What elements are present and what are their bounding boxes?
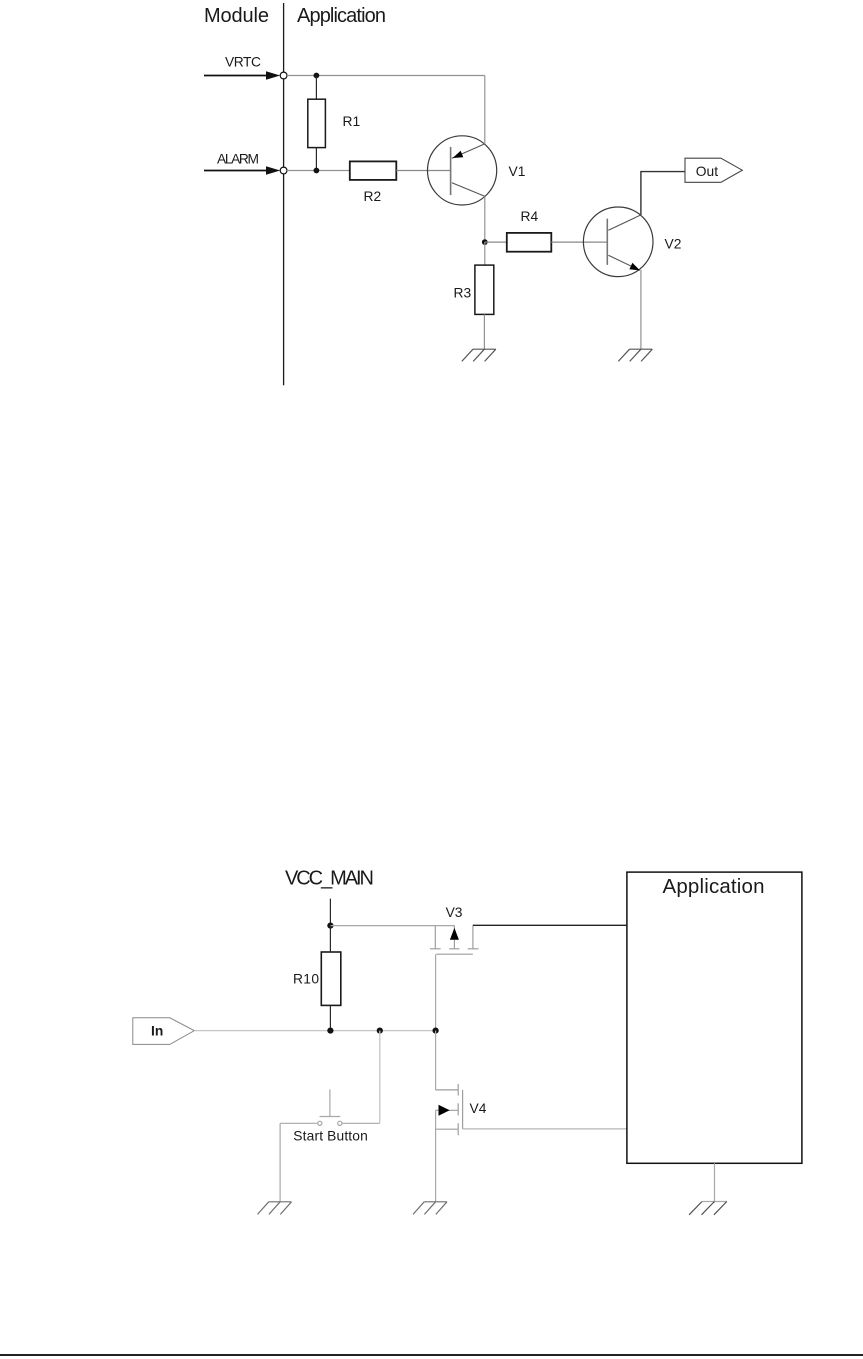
resistor R2 [350, 161, 397, 180]
svg-text:R10: R10 [293, 972, 319, 987]
wire VRTC input arrow [204, 71, 280, 79]
wire VCC_MAIN stub [329, 899, 331, 926]
svg-text:ALARM: ALARM [217, 152, 259, 167]
wire rail down to V4 drain [435, 1031, 437, 1090]
wire V1 emitter up to VRTC rail [484, 76, 486, 145]
svg-text:V3: V3 [446, 905, 463, 920]
wire R3 to ground [483, 314, 485, 348]
wire button right up to In rail [379, 1031, 381, 1124]
wire ALARM rail to R2 [287, 170, 350, 172]
svg-text:VRTC: VRTC [225, 55, 261, 70]
wire VCC rail to V3 [330, 925, 454, 927]
junction VRTC / R1 [314, 73, 320, 79]
pin VRTC terminal [280, 72, 287, 79]
connector Out flag [685, 158, 742, 182]
resistor R3 [475, 265, 494, 314]
transistor V1 (PNP) [428, 136, 497, 205]
wire V3 gate down to In rail [435, 954, 437, 1030]
footer rule [0, 1354, 863, 1356]
junction R10 / In rail [327, 1028, 333, 1034]
svg-text:Application: Application [663, 875, 765, 898]
wire V2 emitter to ground [640, 270, 642, 349]
svg-text:In: In [151, 1023, 163, 1038]
junction V3 gate / V4 drain [433, 1028, 439, 1034]
junction button / In rail [377, 1028, 383, 1034]
ground under Start Button [258, 1202, 292, 1215]
svg-text:Start Button: Start Button [293, 1129, 368, 1144]
ground under Application [689, 1202, 727, 1215]
wire R1 bottom stub [315, 148, 317, 171]
wire V4 source/body down to ground [435, 1110, 437, 1202]
svg-text:R1: R1 [343, 114, 361, 129]
svg-text:R4: R4 [521, 209, 539, 224]
ground under V4 [413, 1202, 447, 1215]
ground under R3 [462, 349, 496, 361]
wire R2 to V1 base [396, 170, 450, 172]
svg-text:Application: Application [297, 5, 386, 27]
push-button Start Button [280, 1089, 380, 1125]
resistor R1 [308, 99, 326, 147]
transistor V4 (N-MOSFET) [436, 1084, 463, 1135]
wire Application box to ground [714, 1163, 716, 1202]
svg-text:Module: Module [204, 5, 269, 27]
wire V4 gate to Application box [463, 1128, 627, 1130]
svg-text:V1: V1 [509, 164, 526, 179]
resistor R10 [321, 952, 341, 1005]
svg-text:V2: V2 [665, 237, 682, 252]
wire R1 top stub [315, 76, 317, 100]
wire VRTC rail [287, 75, 485, 77]
wire R10 top stub [329, 926, 331, 952]
wire V1 collector down [484, 196, 486, 242]
junction VCC node [327, 923, 333, 929]
wire V2 collector to Out flag [641, 172, 685, 215]
wire ALARM input arrow [204, 166, 280, 174]
wire Module/Application boundary line [283, 3, 285, 385]
wire button left to ground [279, 1123, 281, 1202]
connector In flag [133, 1018, 195, 1045]
application box [627, 872, 802, 1163]
wire R10 bottom stub [329, 1005, 331, 1030]
wire node down to R3 [484, 242, 486, 265]
transistor V3 (P-MOSFET) [430, 925, 479, 954]
svg-text:Out: Out [696, 164, 718, 179]
junction ALARM / R1 [314, 168, 320, 174]
svg-text:VCC_MAIN: VCC_MAIN [285, 868, 374, 890]
svg-text:V4: V4 [470, 1101, 487, 1116]
wire V3 drain to Application box [473, 924, 627, 926]
wire node to R4 [485, 241, 507, 243]
svg-text:R2: R2 [364, 189, 382, 204]
junction V1 collector node [482, 239, 488, 245]
transistor V2 (NPN) [583, 207, 653, 277]
pin ALARM terminal [280, 167, 287, 174]
resistor R4 [507, 233, 552, 252]
wire In rail [194, 1030, 435, 1032]
ground under V2 [618, 349, 652, 361]
wire R4 to V2 base [551, 241, 607, 243]
svg-text:R3: R3 [454, 285, 472, 300]
